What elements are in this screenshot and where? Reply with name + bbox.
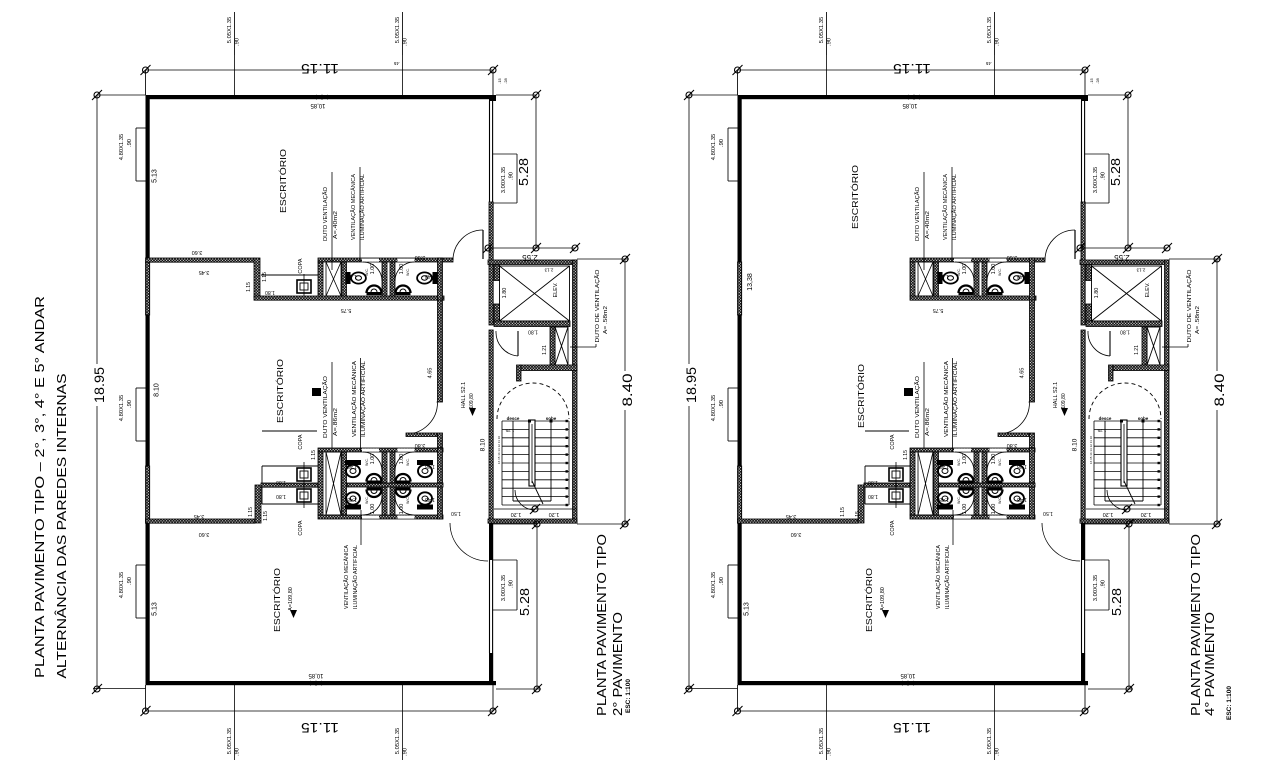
- svg-text:W.C.: W.C.: [365, 458, 369, 466]
- copa rooms lower band: [248, 431, 318, 536]
- svg-text:1.15: 1.15: [248, 507, 254, 517]
- dim line 5.28 top right: [1088, 90, 1133, 253]
- svg-text:VENTILAÇÃO MECÂNICA: VENTILAÇÃO MECÂNICA: [343, 545, 350, 609]
- left wall dim 5.13 top: [152, 169, 159, 183]
- svg-text:.90: .90: [235, 748, 241, 756]
- svg-text:3.00X1.35: 3.00X1.35: [501, 167, 507, 193]
- svg-text:10,85: 10,85: [900, 672, 916, 678]
- svg-text:109,80: 109,80: [469, 393, 475, 409]
- bottom band duct label: [312, 362, 339, 448]
- svg-text:W.C.: W.C.: [957, 496, 961, 504]
- svg-text:W.C.: W.C.: [957, 268, 961, 276]
- svg-text:1.00: 1.00: [991, 504, 997, 515]
- window dim bottom right: [987, 685, 1001, 760]
- svg-text:.90: .90: [827, 38, 833, 46]
- svg-text:2° PAVIMENTO: 2° PAVIMENTO: [610, 612, 625, 716]
- svg-text:5.05X1.35: 5.05X1.35: [227, 17, 233, 43]
- svg-text:1.25: 1.25: [505, 428, 514, 433]
- window dim left bottom: [711, 565, 738, 618]
- svg-text:1.00: 1.00: [962, 454, 968, 465]
- dim 10.85 top: [310, 102, 326, 108]
- svg-text:A= .58m2: A= .58m2: [1195, 306, 1201, 334]
- corner dim labels top right: [497, 77, 508, 83]
- duct label leader: [1162, 344, 1188, 347]
- lower band center wall: [261, 483, 318, 487]
- stair labels desce sobe: [497, 416, 557, 464]
- svg-text:1.48: 1.48: [939, 496, 949, 502]
- top band duct label: [322, 172, 339, 270]
- dim line 18.95 left: [682, 90, 738, 694]
- copa rooms lower band: [840, 431, 910, 536]
- left wall dim 8.10 middle: [154, 383, 161, 397]
- svg-text:11.15: 11.15: [301, 61, 339, 77]
- svg-text:1.80: 1.80: [868, 493, 878, 499]
- svg-text:3.45: 3.45: [194, 513, 205, 519]
- stair treads: [502, 420, 569, 506]
- svg-text:ELEV.: ELEV.: [1145, 282, 1151, 298]
- vent duct shaft: [1109, 327, 1170, 381]
- svg-text:PLANTA PAVIMENTO TIPO: PLANTA PAVIMENTO TIPO: [594, 534, 609, 716]
- svg-text:.15: .15: [1089, 77, 1094, 83]
- lobby opening dim 1.80: [528, 329, 538, 335]
- svg-text:A=.86m2: A=.86m2: [333, 408, 339, 436]
- svg-text:1.80: 1.80: [265, 289, 275, 295]
- svg-text:18.95: 18.95: [684, 367, 699, 403]
- svg-text:3.00X1.35: 3.00X1.35: [1093, 167, 1099, 193]
- svg-text:.90: .90: [127, 400, 133, 408]
- svg-text:16 15 14 13 12 11 10: 16 15 14 13 12 11 10: [1089, 436, 1093, 464]
- lower partition wall to left wall: [146, 519, 256, 523]
- window dim right top: [493, 154, 517, 203]
- svg-text:1.20: 1.20: [549, 511, 560, 517]
- svg-text:3.80: 3.80: [1007, 442, 1018, 448]
- svg-text:1.00: 1.00: [962, 504, 968, 515]
- window dim top left: [819, 12, 833, 95]
- office label middle: [856, 364, 866, 428]
- svg-text:A=.40m2: A=.40m2: [333, 211, 339, 239]
- svg-text:VENTILAÇÃO MECÂNICA: VENTILAÇÃO MECÂNICA: [350, 174, 357, 240]
- window symbol on top wall: [316, 95, 328, 99]
- title plan left: [594, 534, 632, 716]
- svg-text:5.28: 5.28: [1109, 588, 1124, 616]
- dim line 11.15 top: [141, 61, 499, 95]
- elevator lobby door: [1088, 331, 1110, 356]
- window dim top right: [393, 12, 408, 95]
- dim line 11.15 top: [733, 61, 1091, 95]
- hall label: [1053, 382, 1068, 416]
- svg-text:sobe: sobe: [1138, 416, 1149, 421]
- svg-text:1.48: 1.48: [347, 496, 357, 502]
- window dim top left: [227, 12, 241, 95]
- corner dim labels top right: [1089, 77, 1100, 83]
- stair labels desce sobe: [1089, 416, 1149, 464]
- title plan right: [1188, 534, 1233, 720]
- top band bottom wall: [254, 296, 444, 300]
- lower partition jog wall: [255, 485, 261, 523]
- svg-text:10,85: 10,85: [902, 102, 918, 108]
- svg-text:COPA: COPA: [298, 520, 304, 536]
- lower band center wall: [864, 483, 910, 487]
- svg-text:DUTO VENTILAÇÃO: DUTO VENTILAÇÃO: [914, 186, 921, 241]
- svg-text:2.13: 2.13: [1136, 268, 1145, 273]
- toilet block bottom band: [318, 448, 443, 519]
- svg-text:ESC: 1:100: ESC: 1:100: [625, 679, 632, 713]
- toilet block top band: [318, 258, 453, 300]
- window symbol on bottom wall: [310, 681, 322, 685]
- svg-text:.45: .45: [393, 61, 400, 66]
- svg-text:4.80X1.35: 4.80X1.35: [711, 395, 717, 421]
- svg-text:13,38: 13,38: [747, 273, 754, 291]
- window dim bottom left: [819, 685, 833, 760]
- svg-text:DUTO VENTILAÇÃO: DUTO VENTILAÇÃO: [322, 186, 329, 241]
- svg-text:1.80: 1.80: [502, 288, 508, 299]
- bottom band ventilation label: [943, 358, 959, 452]
- svg-text:1.00: 1.00: [991, 454, 997, 465]
- floor plan right (4th floor): [682, 12, 1227, 760]
- top band duct label: [914, 172, 931, 270]
- svg-text:4.80X1.35: 4.80X1.35: [119, 134, 125, 160]
- svg-text:ESCRITÓRIO: ESCRITÓRIO: [278, 149, 288, 213]
- outer wall right with windows: [1081, 95, 1088, 685]
- svg-text:1.15: 1.15: [263, 511, 269, 521]
- dim 4.65 corridor: [428, 368, 434, 379]
- svg-text:5.28: 5.28: [517, 588, 532, 616]
- svg-text:.28: .28: [503, 77, 508, 83]
- lower partition dim 3.60: [791, 531, 802, 537]
- window dim left bottom: [119, 565, 146, 618]
- top band bottom wall: [910, 296, 1036, 300]
- outer wall right with windows: [489, 95, 496, 685]
- dim 1.50 hall door: [451, 510, 461, 516]
- dim 3.60 top band: [1007, 254, 1018, 260]
- svg-text:1.48: 1.48: [347, 463, 357, 469]
- svg-text:5.75: 5.75: [933, 307, 944, 313]
- svg-text:3.00X1.35: 3.00X1.35: [1093, 575, 1099, 601]
- dim 3.80 lower band: [1007, 442, 1018, 448]
- window dim left top: [119, 128, 146, 181]
- svg-text:ESCRITÓRIO: ESCRITÓRIO: [275, 359, 285, 423]
- svg-text:DUTO DE VENTILAÇÃO: DUTO DE VENTILAÇÃO: [594, 269, 601, 343]
- svg-text:1.50: 1.50: [1043, 510, 1053, 516]
- svg-text:1.80: 1.80: [276, 493, 286, 499]
- svg-text:4° PAVIMENTO: 4° PAVIMENTO: [1202, 612, 1217, 716]
- svg-text:COPA: COPA: [890, 520, 896, 536]
- dim 10.85 bottom: [900, 672, 916, 678]
- svg-text:A=.40m2: A=.40m2: [925, 211, 931, 239]
- left wall dim 5.13 bottom: [152, 602, 159, 616]
- svg-text:.90: .90: [509, 172, 515, 180]
- svg-text:109,80: 109,80: [1061, 393, 1067, 409]
- svg-text:1.48: 1.48: [939, 273, 949, 279]
- lower partition wall to left wall: [738, 519, 859, 523]
- corridor wall between band and hall: [1030, 300, 1035, 402]
- svg-text:3.60: 3.60: [415, 254, 426, 260]
- upper partition jog wall: [254, 258, 260, 298]
- svg-text:COPA: COPA: [298, 258, 304, 274]
- stair block right wall: [1165, 260, 1170, 523]
- svg-text:5.05X1.35: 5.05X1.35: [395, 728, 401, 754]
- svg-text:W.C.: W.C.: [957, 458, 961, 466]
- svg-text:1.50: 1.50: [451, 510, 461, 516]
- outer wall left: [738, 95, 742, 685]
- svg-text:5.05X1.35: 5.05X1.35: [987, 728, 993, 754]
- left wall dim 5.13 bottom: [744, 602, 751, 616]
- toilet block bottom band: [910, 448, 1035, 519]
- dim 3.80 lower band: [415, 442, 426, 448]
- svg-text:5.13: 5.13: [152, 169, 159, 183]
- svg-text:1.80: 1.80: [276, 479, 286, 485]
- svg-text:ESC: 1:100: ESC: 1:100: [1226, 686, 1233, 720]
- svg-text:DUTO VENTILAÇÃO: DUTO VENTILAÇÃO: [322, 375, 329, 438]
- svg-text:W.C.: W.C.: [998, 458, 1002, 466]
- svg-text:10,85: 10,85: [310, 102, 326, 108]
- svg-text:1.15: 1.15: [840, 507, 846, 517]
- window dim left middle: [711, 388, 738, 441]
- svg-text:.90: .90: [1101, 172, 1107, 180]
- svg-text:PLANTA PAVIMENTO TIPO: PLANTA PAVIMENTO TIPO: [1188, 534, 1203, 716]
- svg-text:4.80X1.35: 4.80X1.35: [119, 572, 125, 598]
- copa room top band: [246, 258, 319, 299]
- window dim top right: [985, 12, 1000, 95]
- stair bottom door: [1107, 490, 1127, 510]
- window dim left middle: [119, 388, 146, 441]
- svg-text:PLANTA PAVIMENTO TIPO – 2°, 3°: PLANTA PAVIMENTO TIPO – 2°, 3°, 4° E 5° …: [32, 296, 47, 678]
- svg-text:1.80: 1.80: [528, 329, 538, 335]
- upper partition dim 3.60: [192, 249, 203, 255]
- svg-text:ILUMINAÇÃO ARTIFICIAL: ILUMINAÇÃO ARTIFICIAL: [952, 361, 959, 437]
- svg-text:4.80X1.35: 4.80X1.35: [711, 134, 717, 160]
- top band length dim 5.75: [341, 307, 352, 313]
- dim 10.85 bottom: [308, 672, 324, 678]
- outer wall bottom: [146, 681, 497, 685]
- svg-text:1.20: 1.20: [1103, 511, 1114, 517]
- bottom band lower ventilation label: [343, 510, 361, 609]
- svg-text:.90: .90: [1101, 580, 1107, 588]
- floor plan left (2nd floor): [90, 12, 635, 760]
- top band length dim 5.75: [933, 307, 944, 313]
- svg-text:W.C.: W.C.: [406, 458, 410, 466]
- svg-text:3.45: 3.45: [786, 513, 797, 519]
- svg-text:.15: .15: [497, 77, 502, 83]
- bottom band duct label: [904, 362, 931, 448]
- svg-text:3.45: 3.45: [199, 269, 210, 275]
- svg-text:A=109,80: A=109,80: [288, 587, 294, 611]
- svg-text:ELEV.: ELEV.: [553, 282, 559, 298]
- hall label: [461, 382, 476, 416]
- svg-text:W.C.: W.C.: [406, 268, 410, 276]
- svg-text:1.00: 1.00: [370, 264, 376, 275]
- svg-text:1.80: 1.80: [868, 479, 878, 485]
- top band ventilation label: [350, 167, 366, 262]
- svg-text:3.60: 3.60: [199, 531, 210, 537]
- dim line 8.40: [1169, 254, 1227, 529]
- svg-text:ILUMINAÇÃO ARTIFICIAL: ILUMINAÇÃO ARTIFICIAL: [352, 545, 359, 609]
- svg-text:VENTILAÇÃO MECÂNICA: VENTILAÇÃO MECÂNICA: [942, 174, 949, 240]
- svg-text:1.20: 1.20: [511, 511, 522, 517]
- svg-text:5.28: 5.28: [1108, 158, 1123, 186]
- svg-text:ALTERNÂNCIA DAS PAREDES INTERN: ALTERNÂNCIA DAS PAREDES INTERNAS: [54, 373, 69, 678]
- svg-text:1.48: 1.48: [1017, 463, 1027, 469]
- title text left rotated: [32, 296, 69, 679]
- window dim bottom right: [395, 685, 409, 760]
- svg-text:5.05X1.35: 5.05X1.35: [395, 17, 401, 43]
- svg-text:A=.86m2: A=.86m2: [925, 408, 931, 436]
- window symbol on bottom wall: [902, 681, 914, 685]
- hall door to middle office: [998, 403, 1035, 449]
- dim 4.65 corridor: [1020, 368, 1026, 379]
- svg-text:desce: desce: [507, 416, 520, 421]
- svg-text:A= .58m2: A= .58m2: [603, 306, 609, 334]
- svg-text:5.75: 5.75: [341, 307, 352, 313]
- svg-text:3.60: 3.60: [791, 531, 802, 537]
- stair center rail: [1120, 420, 1145, 505]
- svg-text:2.55: 2.55: [1114, 253, 1130, 262]
- svg-text:.90: .90: [127, 577, 133, 585]
- svg-text:1.00: 1.00: [370, 454, 376, 465]
- dim 1.50 hall door: [1043, 510, 1053, 516]
- svg-text:.90: .90: [509, 580, 515, 588]
- dim line 11.15 bottom: [141, 685, 499, 736]
- svg-text:1.48: 1.48: [347, 273, 357, 279]
- svg-text:.90: .90: [719, 139, 725, 147]
- svg-text:3.00X1.35: 3.00X1.35: [501, 575, 507, 601]
- svg-text:HALL S2.1: HALL S2.1: [461, 382, 467, 408]
- lobby opening dim 1.80: [1120, 329, 1130, 335]
- stair block bottom wall: [1080, 519, 1169, 523]
- outer wall left: [146, 95, 150, 685]
- door top office to hall: [453, 230, 483, 260]
- window dim left top: [711, 128, 738, 181]
- svg-text:sobe: sobe: [546, 416, 557, 421]
- stair bottom dims 1.20: [1086, 504, 1169, 517]
- svg-text:10,85: 10,85: [308, 672, 324, 678]
- svg-text:1.00: 1.00: [399, 504, 405, 515]
- svg-text:W.C.: W.C.: [998, 496, 1002, 504]
- top band ventilation label: [942, 167, 958, 262]
- svg-text:8.10: 8.10: [154, 383, 161, 397]
- svg-text:1.25: 1.25: [1097, 428, 1106, 433]
- lower partition dim 3.60: [199, 531, 210, 537]
- elevator shaft: [1086, 265, 1162, 327]
- svg-text:.90: .90: [127, 139, 133, 147]
- svg-text:W.C.: W.C.: [365, 496, 369, 504]
- door hall to bottom office: [1042, 523, 1080, 561]
- stair dashed arc: [1089, 383, 1161, 419]
- dim line 5.28 bottom right: [493, 519, 542, 694]
- svg-text:ESCRITÓRIO: ESCRITÓRIO: [856, 364, 866, 428]
- svg-text:1.48: 1.48: [1017, 273, 1027, 279]
- bottom band lower ventilation label: [935, 510, 953, 609]
- duct label leader: [570, 344, 596, 347]
- svg-text:desce: desce: [1099, 416, 1112, 421]
- svg-text:1.21: 1.21: [1134, 345, 1140, 355]
- upper partition dim 3.45: [199, 269, 210, 275]
- svg-text:1.15: 1.15: [262, 272, 268, 282]
- svg-text:4.65: 4.65: [1020, 368, 1026, 379]
- door top office to hall: [1045, 230, 1075, 260]
- outer wall top: [146, 95, 497, 99]
- dim line 5.28 bottom right: [1085, 519, 1134, 694]
- duct label text: [1186, 269, 1201, 343]
- svg-text:VENTILAÇÃO MECÂNICA: VENTILAÇÃO MECÂNICA: [943, 361, 950, 437]
- hall door to middle office: [406, 403, 443, 449]
- svg-text:COPA: COPA: [298, 434, 304, 450]
- duct label text: [594, 269, 609, 343]
- svg-text:5.13: 5.13: [744, 602, 751, 616]
- vent duct shaft: [517, 327, 578, 381]
- svg-text:2.13: 2.13: [544, 268, 553, 273]
- toilet block top band: [910, 258, 1045, 300]
- svg-text:1.48: 1.48: [425, 273, 435, 279]
- office label top: [278, 149, 288, 213]
- left wall dim 13.38: [747, 273, 754, 291]
- svg-text:ESCRITÓRIO: ESCRITÓRIO: [850, 165, 860, 229]
- window dim right bottom: [1085, 560, 1109, 610]
- dim 3.60 top band: [415, 254, 426, 260]
- svg-text:W.C.: W.C.: [406, 496, 410, 504]
- svg-text:1.48: 1.48: [425, 463, 435, 469]
- stair block right wall: [573, 260, 578, 523]
- office label middle: [275, 359, 285, 423]
- svg-text:ILUMINAÇÃO ARTIFICIAL: ILUMINAÇÃO ARTIFICIAL: [944, 545, 951, 609]
- outer wall bottom: [738, 681, 1089, 685]
- svg-text:.90: .90: [235, 38, 241, 46]
- svg-text:3.60: 3.60: [192, 249, 203, 255]
- svg-text:11.15: 11.15: [893, 720, 931, 736]
- svg-text:DUTO DE VENTILAÇÃO: DUTO DE VENTILAÇÃO: [1186, 269, 1193, 343]
- svg-text:W.C.: W.C.: [365, 268, 369, 276]
- svg-text:.90: .90: [995, 748, 1001, 756]
- svg-text:1.15: 1.15: [903, 450, 909, 460]
- dim line 11.15 bottom: [733, 685, 1091, 736]
- lower partition dim 3.45: [194, 513, 205, 519]
- office label bottom: [864, 568, 889, 632]
- svg-text:COPA: COPA: [890, 434, 896, 450]
- svg-text:5.05X1.35: 5.05X1.35: [819, 17, 825, 43]
- svg-text:1.00: 1.00: [399, 264, 405, 275]
- svg-text:.90: .90: [995, 38, 1001, 46]
- svg-text:4.80X1.35: 4.80X1.35: [711, 572, 717, 598]
- office label top: [850, 165, 860, 229]
- svg-text:11.15: 11.15: [301, 720, 339, 736]
- svg-text:VENTILAÇÃO MECÂNICA: VENTILAÇÃO MECÂNICA: [935, 545, 942, 609]
- upper partition wall to left wall: [146, 258, 255, 262]
- svg-text:1.48: 1.48: [425, 496, 435, 502]
- svg-text:5.13: 5.13: [152, 602, 159, 616]
- svg-text:1.15: 1.15: [311, 450, 317, 460]
- svg-text:.90: .90: [719, 400, 725, 408]
- lower partition jog wall: [858, 485, 864, 523]
- window dim bottom left: [227, 685, 241, 760]
- svg-text:1.20: 1.20: [1141, 511, 1152, 517]
- window dim right bottom: [493, 560, 517, 610]
- dim line 2.55: [483, 243, 580, 262]
- svg-text:1.80: 1.80: [1094, 288, 1100, 299]
- svg-text:4.80X1.35: 4.80X1.35: [119, 395, 125, 421]
- svg-text:.90: .90: [403, 38, 409, 46]
- elevator lobby door: [496, 331, 518, 356]
- svg-text:.45: .45: [985, 61, 992, 66]
- corridor wall between band and hall: [438, 300, 443, 402]
- dim line 18.95 left: [90, 90, 146, 694]
- svg-text:1.21: 1.21: [542, 345, 548, 355]
- svg-text:4.65: 4.65: [428, 368, 434, 379]
- svg-text:DUTO VENTILAÇÃO: DUTO VENTILAÇÃO: [914, 375, 921, 438]
- dim line 2.55: [1075, 243, 1172, 262]
- hall dim 8.10: [1072, 438, 1079, 451]
- svg-text:.90: .90: [719, 577, 725, 585]
- outer wall top: [738, 95, 1089, 99]
